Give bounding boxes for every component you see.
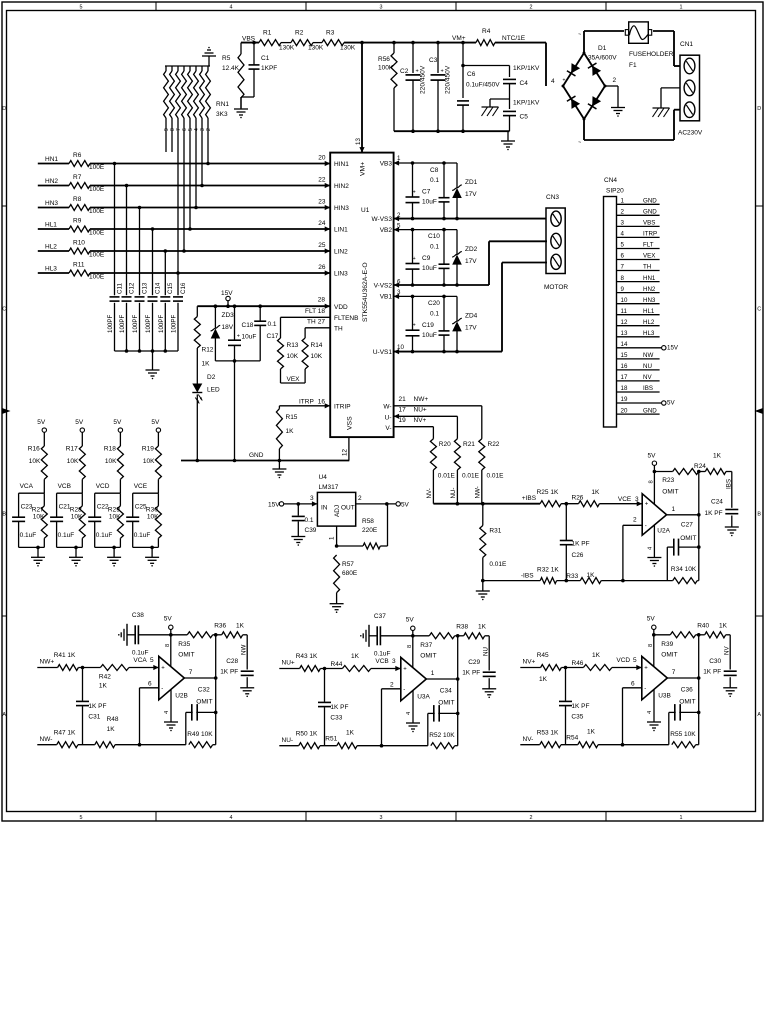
svg-text:3: 3 (380, 815, 383, 821)
resistor R26 (579, 501, 600, 507)
bridge diode lower-left (567, 96, 580, 109)
svg-text:1K: 1K (286, 428, 295, 435)
svg-text:1K: 1K (236, 623, 245, 630)
ground above RN1 (208, 56, 210, 66)
svg-text:C32: C32 (198, 687, 210, 694)
resistor R39 (OMIT) (670, 632, 695, 638)
svg-text:15: 15 (621, 352, 628, 359)
output wire U2B (184, 677, 215, 679)
svg-text:HIN3: HIN3 (334, 205, 349, 212)
svg-text:GND: GND (643, 209, 657, 216)
svg-text:17: 17 (621, 374, 628, 381)
svg-text:130K: 130K (340, 45, 356, 52)
ground under C39 (291, 536, 305, 538)
svg-text:5: 5 (150, 657, 154, 664)
svg-text:7: 7 (621, 264, 625, 271)
svg-text:100PF: 100PF (119, 315, 126, 333)
svg-text:D: D (2, 106, 6, 112)
svg-text:R39: R39 (661, 641, 673, 648)
divider cell VCD 5V terminal (118, 428, 122, 432)
svg-text:C36: C36 (681, 687, 693, 694)
svg-text:12.4K: 12.4K (222, 65, 240, 72)
svg-text:10K: 10K (109, 514, 121, 521)
svg-text:9: 9 (621, 286, 625, 293)
svg-text:LIN2: LIN2 (334, 249, 348, 256)
chassis ground near C4/C5 (490, 98, 510, 100)
svg-text:ZD1: ZD1 (465, 179, 478, 186)
svg-text:R4: R4 (482, 28, 491, 35)
resistor R35 (OMIT) (187, 632, 212, 638)
capacitor C3 (437, 43, 439, 73)
op-amp V+ stub U2A (653, 472, 655, 505)
svg-text:27: 27 (318, 319, 326, 326)
connector CN4 (604, 197, 617, 428)
svg-text:C10: C10 (428, 233, 440, 240)
svg-text:0.1uF: 0.1uF (134, 532, 151, 539)
resistor R25 (540, 501, 561, 507)
wire CN1 pin3 to bridge bottom (674, 109, 680, 111)
svg-text:NW-: NW- (40, 736, 53, 743)
svg-text:R3: R3 (326, 30, 335, 37)
V-VS2 rail to motor (394, 284, 489, 286)
svg-text:24: 24 (318, 220, 326, 227)
ground op-amp pin4 U2A (653, 525, 655, 557)
svg-text:3: 3 (310, 495, 314, 502)
svg-text:3: 3 (380, 4, 383, 10)
5V terminal U3B (652, 625, 656, 629)
svg-text:11: 11 (621, 308, 628, 315)
svg-text:C8: C8 (430, 167, 439, 174)
svg-text:5V: 5V (667, 400, 675, 407)
resistor R37 (OMIT) (429, 633, 454, 639)
IC U4 LM317 (317, 492, 355, 526)
svg-text:GND: GND (643, 407, 657, 414)
svg-text:2: 2 (530, 4, 533, 10)
svg-text:GND: GND (643, 198, 657, 205)
capacitor C35 (565, 668, 567, 701)
capacitor C26 (565, 504, 567, 541)
svg-text:1: 1 (431, 670, 435, 677)
svg-text:VCA: VCA (133, 657, 147, 664)
svg-text:17: 17 (399, 407, 407, 414)
svg-text:R32 1K: R32 1K (537, 566, 559, 573)
ground op-amp pin4 U3B (653, 690, 655, 723)
wire bridge top to fuse (583, 31, 585, 53)
svg-text:~: ~ (578, 32, 581, 38)
top rail wire (413, 635, 430, 637)
svg-text:8: 8 (648, 480, 654, 483)
svg-text:5: 5 (621, 242, 625, 249)
svg-text:100K: 100K (378, 65, 394, 72)
svg-text:0.1: 0.1 (430, 244, 439, 251)
svg-text:1K: 1K (713, 453, 722, 460)
resistor R4 (476, 40, 495, 46)
svg-text:1KP/1KV: 1KP/1KV (513, 65, 540, 72)
wire main rail R3 to R4 (344, 42, 476, 44)
ground under R31 (481, 579, 485, 583)
svg-text:U4: U4 (319, 474, 328, 481)
svg-text:NW+: NW+ (414, 396, 429, 403)
wire R1-R2 (281, 42, 291, 44)
resistor R12 (196, 306, 198, 316)
resistor R23 (OMIT) (673, 469, 699, 475)
svg-text:R55 10K: R55 10K (670, 731, 696, 738)
svg-text:R44: R44 (331, 661, 343, 668)
svg-text:0.01E: 0.01E (487, 473, 505, 480)
capacitor C4 (503, 78, 516, 80)
svg-text:3K3: 3K3 (216, 111, 228, 118)
svg-text:130K: 130K (308, 45, 324, 52)
wire CN1 pin2 to chassis (661, 87, 680, 89)
svg-text:R6: R6 (73, 152, 82, 159)
svg-text:R26: R26 (572, 495, 584, 502)
svg-text:100E: 100E (89, 252, 105, 259)
svg-text:U2B: U2B (175, 693, 188, 700)
ground under cap bank (507, 131, 509, 140)
svg-text:~: ~ (578, 140, 581, 146)
svg-text:HN1: HN1 (643, 275, 656, 282)
svg-text:1K PF: 1K PF (572, 540, 590, 547)
wire R2-R3 (313, 42, 322, 44)
svg-text:NU+: NU+ (282, 660, 295, 667)
svg-text:13: 13 (355, 138, 362, 145)
svg-text:10: 10 (621, 297, 628, 304)
svg-text:6: 6 (148, 681, 152, 688)
svg-text:+: + (403, 667, 407, 673)
svg-text:3: 3 (635, 496, 639, 503)
fuseholder F1 (629, 22, 649, 43)
resistor R58 (337, 545, 363, 547)
svg-text:20: 20 (318, 155, 326, 162)
15V rail (197, 305, 330, 307)
capacitor C21 (56, 493, 58, 517)
frame center arrow left (2, 408, 11, 414)
svg-text:-: - (645, 523, 647, 529)
svg-text:1: 1 (329, 536, 336, 540)
svg-text:OUT: OUT (341, 505, 355, 512)
svg-text:NU: NU (483, 647, 490, 656)
bridge diode upper-right (588, 63, 601, 76)
svg-text:R30: R30 (146, 507, 158, 514)
wire R33 to R34 (601, 580, 673, 582)
svg-text:V-VS2: V-VS2 (374, 283, 393, 290)
node VBS (241, 42, 259, 44)
resistor R21 (454, 439, 460, 470)
svg-text:5: 5 (633, 657, 637, 664)
-IBS rail (483, 580, 540, 582)
svg-text:-IBS: -IBS (521, 573, 534, 580)
capacitor C2 (412, 43, 414, 73)
svg-text:C16: C16 (180, 282, 187, 294)
border frame inner (7, 11, 756, 812)
capacitor C34 (OMIT) (427, 713, 429, 745)
svg-text:0.1uF: 0.1uF (96, 532, 113, 539)
svg-text:NU+: NU+ (414, 407, 427, 414)
svg-text:FLT: FLT (643, 242, 654, 249)
svg-text:R15: R15 (286, 414, 298, 421)
bootstrap block 1 rails (394, 162, 457, 164)
svg-text:1K: 1K (99, 683, 108, 690)
svg-text:15V: 15V (667, 344, 679, 351)
ZD3 block bottom rail (215, 360, 260, 362)
capacitor C29 to net NU (488, 636, 490, 671)
svg-text:R25 1K: R25 1K (537, 489, 559, 496)
svg-text:100E: 100E (89, 164, 105, 171)
bridge rectifier D1 (563, 53, 605, 119)
svg-text:MOTOR: MOTOR (544, 284, 568, 291)
svg-text:R46: R46 (572, 660, 584, 667)
svg-text:0.1uF: 0.1uF (132, 650, 149, 657)
resistor R19 (157, 432, 159, 446)
divider cell VCE 5V terminal (156, 428, 160, 432)
svg-text:IN: IN (321, 505, 328, 512)
svg-text:R28: R28 (70, 507, 82, 514)
svg-text:W-VS3: W-VS3 (372, 216, 393, 223)
svg-text:220E: 220E (362, 527, 378, 534)
svg-text:VEX: VEX (643, 253, 655, 260)
svg-text:0.1: 0.1 (430, 311, 439, 318)
svg-text:8: 8 (648, 644, 654, 647)
svg-text:R40: R40 (697, 623, 709, 630)
svg-text:1K: 1K (587, 572, 596, 579)
svg-text:5V: 5V (151, 419, 160, 426)
svg-text:10K: 10K (311, 353, 323, 360)
svg-text:LIN1: LIN1 (334, 227, 348, 234)
svg-text:7: 7 (189, 669, 193, 676)
svg-text:100PF: 100PF (158, 315, 165, 333)
svg-text:100PF: 100PF (132, 315, 139, 333)
5V terminal U3A (411, 626, 415, 630)
svg-text:OMIT: OMIT (196, 699, 212, 706)
net bar VCB (57, 492, 83, 494)
svg-text:1: 1 (397, 155, 401, 162)
svg-text:12: 12 (621, 319, 628, 326)
svg-text:RN1: RN1 (216, 101, 229, 108)
resistor R22 (479, 439, 485, 470)
svg-text:C12: C12 (128, 282, 135, 294)
svg-text:130K: 130K (279, 45, 295, 52)
svg-text:10K: 10K (147, 514, 159, 521)
svg-text:VB3: VB3 (380, 161, 393, 168)
cell VCB bottom bar and ground (57, 546, 83, 548)
svg-text:C6: C6 (467, 71, 476, 78)
svg-text:HN2: HN2 (45, 178, 58, 185)
svg-text:5V: 5V (37, 419, 46, 426)
svg-text:R7: R7 (73, 174, 82, 181)
bottom rail of cap bank (394, 130, 510, 132)
svg-text:22: 22 (318, 177, 326, 184)
svg-text:VCD: VCD (616, 657, 630, 664)
svg-text:R19: R19 (142, 446, 154, 453)
svg-text:OMIT: OMIT (679, 699, 695, 706)
frame zone ticks bottom (155, 812, 157, 822)
svg-text:C15: C15 (167, 282, 174, 294)
svg-text:1K PF: 1K PF (705, 510, 723, 517)
svg-text:A: A (757, 712, 761, 718)
svg-text:FLTENB: FLTENB (334, 315, 358, 322)
svg-text:0.01E: 0.01E (489, 561, 507, 568)
svg-text:C11: C11 (116, 283, 123, 294)
wire R26 to U2A pin3 (599, 503, 642, 505)
+IBS rail (433, 503, 540, 505)
resistor R1 (259, 40, 281, 46)
svg-text:C2: C2 (400, 68, 409, 75)
svg-text:18V: 18V (222, 324, 234, 331)
svg-text:14: 14 (621, 341, 628, 348)
resistor R57 (335, 544, 339, 548)
svg-text:1: 1 (680, 815, 683, 821)
U1 bottom VSS stub (348, 437, 350, 460)
svg-text:NTC/1E: NTC/1E (502, 35, 526, 42)
svg-text:10K: 10K (67, 458, 79, 465)
resistor R2 (291, 40, 313, 46)
svg-text:0.1uF: 0.1uF (374, 651, 391, 658)
wire fuse to CN1 pin1 (653, 30, 674, 32)
svg-text:ITRP: ITRP (299, 399, 314, 406)
capacitor C5 (503, 110, 516, 112)
svg-text:R2: R2 (295, 30, 304, 37)
svg-text:ZD4: ZD4 (465, 313, 478, 320)
svg-text:6: 6 (397, 279, 401, 286)
capacitor C22 (94, 493, 96, 517)
svg-text:C33: C33 (330, 715, 342, 722)
svg-text:GND: GND (249, 452, 264, 459)
capacitor C37 (368, 625, 370, 647)
svg-text:6: 6 (631, 681, 635, 688)
svg-text:U3A: U3A (417, 694, 430, 701)
svg-text:8: 8 (621, 275, 625, 282)
capacitor C36 (OMIT) (668, 712, 670, 744)
feedback to - input (622, 688, 624, 745)
svg-text:5V: 5V (164, 616, 173, 623)
ground on GND rail (278, 461, 280, 470)
svg-text:2: 2 (621, 209, 625, 216)
svg-text:+: + (563, 78, 566, 84)
svg-text:U-: U- (385, 415, 392, 422)
svg-text:NW-: NW- (475, 486, 482, 498)
capacitor C17 (259, 306, 261, 321)
svg-text:1K PF: 1K PF (88, 703, 106, 710)
svg-text:F1: F1 (629, 62, 637, 69)
LM317 OUT wire to 5V (356, 503, 396, 505)
svg-text:NW+: NW+ (40, 659, 55, 666)
capacitor C25 (132, 493, 134, 517)
svg-text:100E: 100E (89, 186, 105, 193)
svg-text:3: 3 (621, 220, 625, 227)
op-amp U3B (642, 656, 668, 699)
LM317 ADJ pin wire (336, 526, 338, 546)
capacitor C32 (OMIT) (185, 712, 187, 744)
svg-text:2: 2 (397, 212, 401, 219)
svg-text:ZD3: ZD3 (222, 312, 235, 319)
svg-text:4: 4 (230, 4, 233, 10)
svg-text:1K PF: 1K PF (220, 669, 238, 676)
svg-text:HL2: HL2 (45, 244, 57, 251)
svg-text:C20: C20 (428, 300, 440, 307)
bootstrap block 2 rails (394, 229, 457, 231)
svg-text:18: 18 (318, 308, 326, 315)
svg-text:+: + (237, 333, 240, 339)
svg-text:18: 18 (621, 385, 628, 392)
svg-text:NV+: NV+ (523, 659, 536, 666)
svg-text:B: B (2, 512, 6, 518)
5V terminal LM317 (396, 502, 400, 506)
svg-text:100E: 100E (89, 208, 105, 215)
V- wire to R20 (394, 426, 434, 428)
svg-text:SIP20: SIP20 (606, 188, 624, 195)
svg-text:10K: 10K (105, 458, 117, 465)
svg-text:28: 28 (318, 297, 326, 304)
resistor R34 (673, 578, 698, 584)
svg-text:1K PF: 1K PF (703, 669, 721, 676)
svg-text:HN1: HN1 (45, 156, 58, 163)
svg-text:W-: W- (383, 404, 391, 411)
resistor R28 (81, 493, 83, 506)
svg-text:R38: R38 (456, 624, 468, 631)
svg-text:R43 1K: R43 1K (296, 653, 318, 660)
svg-text:1: 1 (621, 198, 625, 205)
svg-text:HIN2: HIN2 (334, 183, 349, 190)
svg-text:R14: R14 (311, 342, 323, 349)
svg-text:1K: 1K (591, 489, 600, 496)
cell VCD bottom bar and ground (95, 546, 121, 548)
svg-text:C24: C24 (711, 499, 723, 506)
svg-text:0.1uF: 0.1uF (20, 532, 37, 539)
svg-text:VCA: VCA (20, 483, 34, 490)
FLT wire pin 18 (281, 316, 331, 318)
svg-text:13: 13 (621, 330, 628, 337)
svg-text:VM+: VM+ (360, 162, 367, 176)
svg-text:2: 2 (206, 128, 212, 131)
svg-text:5: 5 (80, 815, 83, 821)
svg-text:V-: V- (385, 425, 391, 432)
svg-text:0.1: 0.1 (430, 177, 439, 184)
svg-text:D2: D2 (207, 374, 216, 381)
15V terminal LM317 (279, 502, 283, 506)
resistor R13 (278, 338, 284, 369)
feedback to - input (139, 688, 141, 745)
svg-text:C5: C5 (520, 114, 529, 121)
svg-text:R42: R42 (99, 674, 111, 681)
svg-text:7: 7 (672, 669, 676, 676)
svg-text:CN1: CN1 (680, 41, 693, 48)
svg-text:OMIT: OMIT (178, 652, 194, 659)
svg-text:2: 2 (358, 495, 362, 502)
svg-text:1K PF: 1K PF (571, 703, 589, 710)
svg-text:10: 10 (397, 344, 404, 351)
frame zone ticks top (155, 2, 157, 11)
svg-text:CN4: CN4 (604, 177, 617, 184)
divider cell VCB 5V terminal (80, 428, 84, 432)
svg-text:2: 2 (530, 815, 533, 821)
svg-text:10K: 10K (29, 458, 41, 465)
net bar VCE (133, 492, 159, 494)
svg-text:8: 8 (165, 644, 171, 647)
resistor R3 (322, 40, 344, 46)
svg-text:20: 20 (621, 407, 628, 414)
resistor R16 (43, 432, 45, 446)
svg-text:B: B (757, 512, 761, 518)
svg-text:R54: R54 (566, 735, 578, 742)
svg-text:HL1: HL1 (45, 222, 57, 229)
svg-text:+: + (645, 502, 649, 508)
svg-text:+: + (413, 323, 416, 329)
wire R5/C1 bottom (241, 96, 254, 98)
svg-text:R34 10K: R34 10K (671, 566, 697, 573)
svg-text:19: 19 (399, 417, 407, 424)
svg-text:FUSEHOLDER: FUSEHOLDER (629, 51, 674, 58)
capacitor C6 (462, 43, 464, 98)
